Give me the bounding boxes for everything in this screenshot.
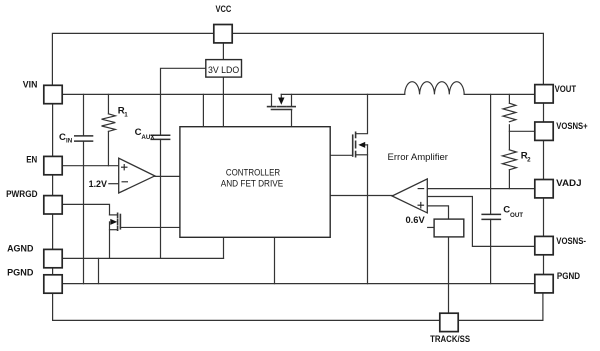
wire EN to comparator + input — [63, 165, 119, 167]
wire error amp output to controller — [330, 195, 392, 197]
wire R1 top — [107, 94, 109, 113]
wire left pin chain VIN-EN — [52, 104, 54, 157]
wire 1.2V stub to comparator - input — [109, 183, 119, 185]
wire 3V LDO output down to controller — [222, 77, 224, 127]
pin VIN — [44, 85, 62, 103]
wire controller AGND pin — [223, 237, 225, 258]
svg-text:VIN: VIN — [23, 79, 38, 90]
wire Q2 source to AGND rail — [109, 222, 111, 259]
wire left pin chain PWRGD-AGND — [52, 213, 54, 249]
wire error amp minus input to VADJ — [427, 188, 535, 190]
wire R1 bottom to EN line — [107, 131, 109, 165]
wire VIN rail left segment — [62, 93, 271, 95]
svg-text:VCC: VCC — [215, 4, 231, 15]
pin VOSNS- — [535, 236, 553, 254]
controller block U1 — [180, 127, 330, 238]
transistor Q3 channel dashes — [355, 132, 357, 156]
pin PWRGD — [44, 196, 62, 214]
svg-text:0.6V: 0.6V — [406, 215, 426, 226]
transistor Q3 source lead — [356, 154, 368, 156]
wire C_IN top — [83, 94, 85, 135]
3V LDO block U4 — [206, 60, 242, 78]
wire controller PGND pin — [274, 237, 276, 283]
capacitor C_OUT — [481, 214, 501, 219]
svg-text:VOSNS-: VOSNS- — [556, 236, 586, 247]
transistor Q2 channel dashes — [117, 213, 119, 230]
wire reference box to TRACK/SS — [448, 237, 450, 313]
op-amp U3 error amplifier — [392, 179, 427, 213]
comparator U2 (EN comparator) — [119, 158, 155, 193]
transistor Q2 gate bar — [119, 215, 121, 229]
wire top rail VIN riser to VCC to VOUT drop — [52, 33, 543, 85]
transistor Q1 gate bar — [272, 109, 292, 111]
svg-text:AUX: AUX — [141, 134, 155, 141]
pin TRACK/SS — [440, 313, 458, 331]
wire 3V LDO left to CAUX line — [161, 68, 206, 135]
svg-text:AGND: AGND — [7, 244, 33, 255]
wire divider top — [508, 94, 510, 103]
wire VCC to 3V LDO — [222, 43, 224, 60]
pin AGND — [44, 249, 62, 267]
svg-text:3V LDO: 3V LDO — [208, 65, 239, 76]
transistor Q1 body arrow stub — [280, 94, 282, 97]
capacitor C_IN — [74, 136, 93, 141]
pin VOUT — [535, 85, 553, 103]
wire VIN rail right segment (switch node to inductor) — [281, 93, 405, 95]
pin PGND right — [535, 275, 553, 293]
svg-text:PGND: PGND — [7, 268, 33, 279]
wire C_OUT top — [490, 94, 492, 214]
wire VIN rail riser to controller top — [202, 94, 204, 126]
wire divider mid — [508, 125, 510, 150]
reference / soft-start block U5 — [434, 219, 464, 237]
pin VADJ — [535, 180, 553, 198]
svg-text:CONTROLLER: CONTROLLER — [226, 168, 280, 179]
svg-text:OUT: OUT — [510, 212, 523, 219]
wire right pin chain VOSNS+-VADJ — [543, 140, 545, 179]
svg-text:C: C — [59, 132, 66, 143]
wire Q3 gate to controller — [330, 154, 353, 156]
svg-text:TRACK/SS: TRACK/SS — [430, 334, 470, 345]
svg-text:Error Amplifier: Error Amplifier — [388, 152, 449, 163]
wire error amp mid pin to VOSNS- — [427, 197, 535, 247]
svg-text:IN: IN — [66, 138, 73, 145]
resistor R_top — [503, 103, 516, 122]
transistor Q3 body lead — [365, 144, 368, 146]
wire Q2 gate to controller — [120, 226, 179, 228]
svg-text:AND FET DRIVE: AND FET DRIVE — [221, 179, 284, 190]
capacitor C_AUX — [150, 135, 170, 139]
wire right pin chain VOSNS--PGND — [543, 255, 545, 275]
transistor Q2 body arrow head — [110, 219, 117, 225]
wire VOSNS+ tap — [509, 130, 534, 132]
wire AGND rail — [63, 257, 224, 259]
transistor Q2 PWRGD FET drain lead — [110, 214, 118, 216]
transistor Q1 body arrow head — [278, 98, 284, 105]
wire R2 bottom to VADJ line — [508, 170, 510, 189]
transistor Q1 channel dashes — [268, 106, 296, 108]
inductor L1 — [405, 82, 464, 95]
pin EN — [44, 156, 62, 174]
resistor R1 — [102, 114, 116, 132]
wire comparator output to controller — [155, 175, 180, 177]
wire right pin chain VOUT-VOSNS+ — [543, 103, 545, 122]
transistor Q3 gate bar — [352, 135, 354, 156]
wire PWRGD to FET drain — [63, 204, 110, 215]
wire left pin chain EN-PWRGD — [52, 175, 54, 196]
svg-text:1: 1 — [124, 112, 128, 119]
transistor Q1 source drop — [291, 94, 293, 106]
wire bottom rail left from PGND to TRACK/SS — [53, 293, 440, 321]
transistor Q3 body arrow head — [358, 142, 365, 148]
wire 0.6V stub into reference box — [428, 226, 434, 228]
pin PGND left — [44, 275, 62, 293]
wire inductor to VOUT rail — [464, 93, 535, 95]
pin VCC — [214, 25, 232, 43]
transistor Q3 low-side FET drain — [356, 94, 368, 133]
wire left pin chain AGND-PGND — [52, 268, 54, 275]
svg-text:PGND: PGND — [557, 271, 580, 282]
pin VOSNS+ — [535, 122, 553, 140]
wire C_OUT bottom to PGND rail — [490, 219, 492, 283]
wire PGND rail — [63, 283, 535, 285]
wire right pin chain VADJ-VOSNS- — [543, 198, 545, 237]
wire Q3 source to PGND rail — [367, 145, 369, 284]
wire CAUX bottom to AGND rail — [160, 139, 162, 258]
wire Q1 gate to controller top — [291, 110, 293, 127]
svg-text:VOSNS+: VOSNS+ — [556, 121, 588, 132]
transistor Q1 high-side FET drain drop — [271, 94, 273, 106]
svg-text:2: 2 — [527, 157, 531, 164]
transistor Q2 source lead — [110, 229, 118, 231]
svg-text:PWRGD: PWRGD — [6, 189, 37, 200]
wire AGND-PGND tie — [98, 258, 100, 283]
svg-text:EN: EN — [26, 154, 37, 165]
svg-text:VOUT: VOUT — [555, 84, 577, 95]
wire bottom rail right from TRACK/SS to PGND right — [458, 293, 543, 321]
wire C_IN bottom to PGND rail — [83, 141, 85, 284]
svg-text:1.2V: 1.2V — [89, 179, 108, 190]
resistor R2 — [502, 150, 516, 170]
wire error amp plus input to reference box — [427, 206, 448, 219]
svg-text:VADJ: VADJ — [556, 178, 581, 189]
